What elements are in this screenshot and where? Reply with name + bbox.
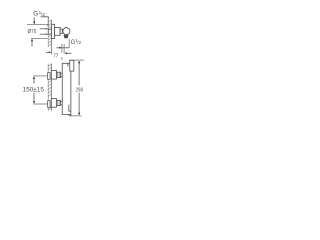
arrow up (escutcheon bottom ext) bbox=[31, 39, 33, 47]
knob front ext line bbox=[68, 39, 70, 48]
77 right ext lines bbox=[61, 44, 63, 53]
escutcheon (top view) bbox=[51, 24, 54, 38]
wall back edge (front view) bbox=[47, 64, 49, 111]
wall (front view) hatch bbox=[48, 64, 51, 110]
upper union: nut bbox=[56, 72, 60, 77]
knob button nub (top view) bbox=[65, 27, 67, 29]
pipe arrow tips bbox=[46, 28, 48, 35]
svg-text:298: 298 bbox=[76, 88, 83, 94]
svg-text:150±15: 150±15 bbox=[23, 87, 45, 93]
77 right arrow bbox=[64, 52, 71, 54]
label G1/2 (right) bbox=[71, 38, 82, 46]
lower union: box behind wall bbox=[48, 101, 50, 108]
neck (top view) bbox=[60, 29, 62, 33]
arrow down (escutcheon top ext) bbox=[33, 18, 35, 25]
150 dim line + arrows bbox=[33, 76, 35, 104]
lower union: escutcheon bbox=[51, 99, 56, 108]
lower union: nut bbox=[56, 100, 60, 105]
ext line escutcheon top bbox=[27, 23, 48, 25]
svg-text:Ø70: Ø70 bbox=[28, 29, 37, 35]
tick above body corner bbox=[61, 57, 63, 59]
knob circle (top view) bbox=[63, 28, 70, 35]
svg-text:G: G bbox=[33, 11, 38, 18]
wall face line (front view) bbox=[50, 64, 52, 111]
77 left arrow bbox=[46, 51, 51, 53]
top ext line (298) bbox=[69, 59, 83, 61]
knob tab bbox=[64, 35, 68, 38]
upper union: box behind wall bbox=[48, 73, 50, 80]
union nipple crossing wall (top view) bbox=[48, 29, 51, 34]
supply pipe behind wall bbox=[40, 29, 49, 34]
body (top view) bbox=[55, 27, 61, 35]
lower union: connect to body bbox=[61, 100, 63, 102]
bottom ext line (298) bbox=[69, 115, 81, 117]
leader of right G1/2 bbox=[57, 47, 70, 49]
wall (top view) hatch bbox=[48, 20, 51, 47]
svg-text:77: 77 bbox=[53, 54, 58, 60]
150 ext lines bbox=[33, 75, 47, 77]
leader G1/2 to pipe bbox=[41, 17, 50, 28]
svg-text:/2: /2 bbox=[77, 40, 81, 45]
upper union: connect to body bbox=[61, 72, 63, 74]
body (front view) bbox=[62, 63, 71, 116]
upper union: escutcheon bbox=[51, 71, 56, 80]
298 dim line + arrows bbox=[78, 61, 80, 116]
label G1/2 (top left) bbox=[33, 10, 45, 18]
wall face line (top view), continues as 77 left ext bbox=[50, 20, 52, 55]
handle box at body top bbox=[70, 60, 74, 71]
ext line escutcheon bottom bbox=[31, 37, 48, 39]
wall back edge (top view) bbox=[47, 20, 49, 47]
svg-text:/2: /2 bbox=[41, 12, 45, 17]
